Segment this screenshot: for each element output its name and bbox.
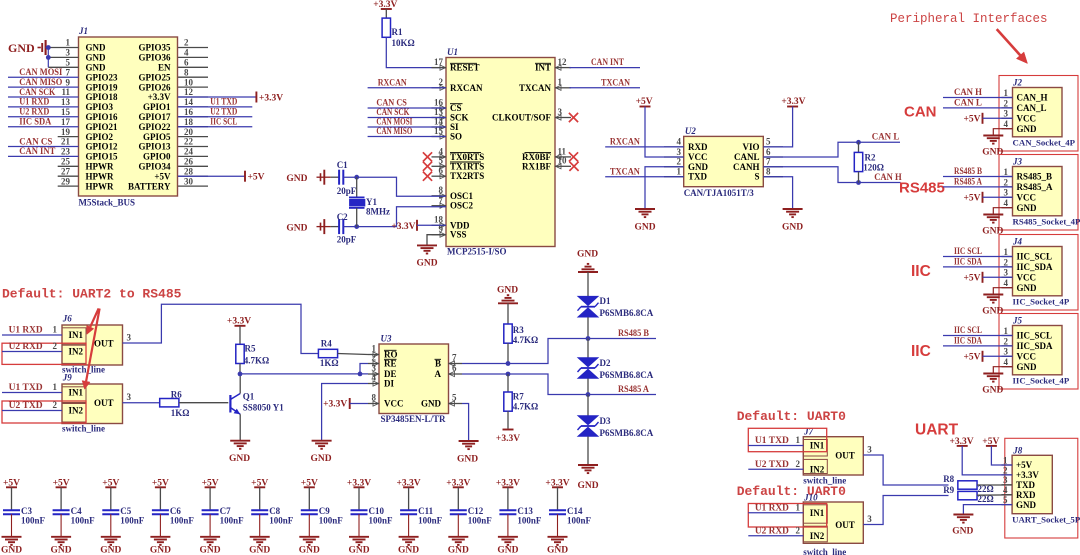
wire GND bus vertical at J1: [47, 48, 49, 68]
svg-text:RXD: RXD: [688, 142, 708, 152]
J3 pin numbers: [1004, 167, 1009, 208]
J1 pin numbers right (even): [184, 38, 194, 187]
svg-text:D1: D1: [600, 296, 611, 306]
svg-text:GND: GND: [577, 481, 598, 491]
svg-text:R7: R7: [513, 391, 524, 401]
power +3.3V above C12: [446, 478, 470, 510]
capacitor C13 100nF: [499, 506, 542, 526]
svg-text:U1 RXD: U1 RXD: [755, 502, 790, 512]
svg-text:GPIO19: GPIO19: [86, 82, 119, 92]
svg-text:R5: R5: [245, 344, 256, 354]
svg-text:IIC SDA: IIC SDA: [954, 257, 982, 267]
J5 pin names: [1017, 331, 1054, 372]
svg-text:IN1: IN1: [810, 508, 825, 518]
power +5V above C3: [3, 478, 20, 510]
svg-text:2: 2: [1004, 177, 1009, 187]
J5 pin stubs: [1002, 336, 1013, 367]
wire J10 OUT to R9: [863, 496, 948, 525]
svg-text:3: 3: [1004, 188, 1009, 198]
svg-text:GPIO21: GPIO21: [86, 122, 119, 132]
svg-text:RS485: RS485: [899, 180, 945, 197]
svg-text:GPIO0: GPIO0: [143, 152, 171, 162]
svg-text:IN2: IN2: [69, 406, 84, 416]
svg-text:IIC SDA: IIC SDA: [19, 117, 51, 127]
svg-text:Y1: Y1: [366, 197, 377, 207]
svg-text:DI: DI: [384, 379, 394, 389]
wire U3 DI to ground: [322, 384, 368, 441]
svg-text:J5: J5: [1012, 316, 1023, 326]
svg-text:U1 TXD: U1 TXD: [9, 382, 44, 392]
svg-text:3: 3: [677, 147, 682, 157]
svg-text:100nF: 100nF: [170, 515, 195, 525]
svg-text:4: 4: [1004, 357, 1009, 367]
svg-text:U2 TXD: U2 TXD: [755, 459, 790, 469]
svg-text:CAN INT: CAN INT: [19, 146, 55, 156]
svg-text:1: 1: [66, 38, 71, 48]
node IIC_SCL at J4 pin1: [943, 246, 1013, 256]
switch J6 body: [62, 314, 123, 375]
crystal Y1 8MHz: [349, 177, 390, 226]
node CAN_H at J2 pin1: [943, 87, 1013, 97]
svg-text:14: 14: [184, 97, 194, 107]
svg-text:6: 6: [766, 147, 771, 157]
junction D1 D2 on RS485_B: [586, 336, 591, 341]
power +5V above C6: [152, 478, 169, 510]
svg-text:+5V: +5V: [248, 173, 265, 183]
svg-text:IIC_Socket_4P: IIC_Socket_4P: [1013, 297, 1070, 307]
svg-text:4: 4: [1004, 198, 1009, 208]
wire C9 to ground: [308, 514, 310, 537]
svg-text:J10: J10: [803, 492, 818, 502]
wire J2 pin4 to ground: [993, 129, 1012, 136]
svg-text:C6: C6: [170, 506, 181, 516]
svg-text:RESET: RESET: [450, 63, 480, 73]
J6 pin texts: [69, 330, 114, 357]
svg-text:GPIO1: GPIO1: [143, 102, 171, 112]
svg-text:VCC: VCC: [1017, 352, 1037, 362]
red highlight box around J4: [999, 235, 1078, 311]
svg-text:U1 RXD: U1 RXD: [9, 325, 44, 335]
svg-text:6: 6: [184, 58, 189, 68]
U3 pin stubs: [368, 352, 462, 406]
power port GND at J1 pins 1-3-5: [8, 40, 48, 55]
svg-text:VCC: VCC: [1017, 193, 1037, 203]
svg-text:2: 2: [677, 157, 682, 167]
svg-text:CAN CS: CAN CS: [19, 136, 52, 146]
svg-text:8MHz: 8MHz: [366, 207, 390, 217]
svg-text:GPIO36: GPIO36: [138, 53, 171, 63]
svg-text:GPIO5: GPIO5: [143, 132, 171, 142]
svg-text:1: 1: [53, 325, 58, 335]
wire C8 to ground: [259, 514, 261, 537]
svg-text:R4: R4: [321, 339, 332, 349]
junction R3 on B wire: [506, 361, 511, 366]
svg-text:GND: GND: [1017, 283, 1038, 293]
svg-text:1: 1: [677, 167, 682, 177]
node U1 TXD at J7 IN1: [748, 435, 803, 445]
J6 IN2 cell: [62, 345, 86, 363]
svg-text:1: 1: [1003, 455, 1008, 465]
wire C2 to OSC2: [343, 207, 446, 227]
power port GND at C1: [286, 170, 330, 185]
svg-text:23: 23: [61, 147, 71, 157]
svg-text:GND: GND: [782, 223, 803, 233]
junction at J1 pin1: [46, 45, 51, 50]
svg-text:R6: R6: [171, 390, 182, 400]
svg-text:U2 RXD: U2 RXD: [19, 107, 49, 117]
power +5V at J2 pin3: [963, 113, 1012, 125]
svg-text:IN2: IN2: [810, 531, 825, 541]
svg-text:OUT: OUT: [94, 339, 114, 349]
svg-text:12: 12: [184, 87, 194, 97]
red highlight box around J8: [1005, 438, 1078, 538]
power port GND at C2: [286, 219, 330, 234]
svg-text:5: 5: [766, 137, 771, 147]
junction crystal bottom: [354, 224, 359, 229]
svg-text:GPIO25: GPIO25: [138, 72, 171, 82]
svg-text:+3.3V: +3.3V: [496, 434, 520, 444]
capacitor C5 100nF: [102, 506, 145, 526]
power +3.3V above R5: [227, 317, 251, 345]
svg-text:EN: EN: [158, 63, 171, 73]
wire C6 to ground: [159, 514, 161, 537]
svg-text:GND: GND: [421, 399, 442, 409]
wire J3 pin4 to ground: [993, 208, 1012, 215]
svg-text:GPIO23: GPIO23: [86, 72, 119, 82]
svg-text:IIC_SDA: IIC_SDA: [1017, 262, 1054, 272]
svg-text:1: 1: [1004, 167, 1009, 177]
svg-text:18: 18: [184, 117, 194, 127]
svg-text:IN1: IN1: [69, 330, 84, 340]
svg-text:D2: D2: [600, 358, 611, 368]
svg-text:OUT: OUT: [835, 520, 855, 530]
capacitor C7 100nF: [202, 506, 245, 526]
wire R1 to U1 RESET pin 17: [386, 37, 446, 67]
J1 left pin stubs: [8, 48, 79, 187]
ground below C8: [249, 537, 270, 555]
svg-text:100nF: 100nF: [71, 515, 96, 525]
svg-text:GND: GND: [100, 546, 121, 555]
svg-text:20: 20: [184, 127, 194, 137]
svg-text:RXCAN: RXCAN: [378, 78, 407, 88]
J10 red highlight rectangle: [748, 504, 826, 528]
wire C5 to ground: [110, 514, 112, 537]
svg-text:TXCAN: TXCAN: [519, 83, 552, 93]
resistor R6 1Kohm: [160, 390, 229, 419]
power +5V at U2 VCC: [636, 97, 684, 157]
svg-text:RX1BF: RX1BF: [522, 161, 552, 171]
power +5V at J4 pin3: [963, 272, 1012, 284]
svg-text:RXCAN: RXCAN: [610, 137, 640, 147]
svg-text:GPIO12: GPIO12: [86, 142, 119, 152]
switch J7 body: [803, 427, 863, 486]
svg-text:2: 2: [53, 400, 58, 410]
node IIC_SDA at J5 pin2: [943, 336, 1013, 346]
svg-text:120Ω: 120Ω: [863, 162, 884, 172]
svg-text:4: 4: [677, 137, 682, 147]
J8 pin stubs: [1002, 465, 1013, 505]
svg-text:GPIO34: GPIO34: [138, 162, 171, 172]
svg-text:GND: GND: [229, 454, 250, 464]
capacitor C10 100nF: [351, 506, 394, 526]
svg-text:GND: GND: [200, 546, 221, 555]
wire U2 CANH to CAN_H: [763, 167, 900, 183]
svg-text:GND: GND: [547, 546, 568, 555]
svg-text:21: 21: [61, 137, 71, 147]
svg-text:20pF: 20pF: [337, 186, 357, 196]
ground at J3: [982, 215, 1003, 237]
wire C14 to ground: [557, 514, 559, 537]
wire collector node to U3 DE RE: [240, 373, 368, 375]
U1 pin stubs left: [432, 65, 447, 237]
svg-text:U2 RXD: U2 RXD: [9, 341, 44, 351]
node U2 RXD at J6 IN2: [2, 341, 62, 351]
svg-text:10KΩ: 10KΩ: [392, 38, 415, 48]
svg-text:TXCAN: TXCAN: [610, 166, 640, 176]
resistor R8 22ohm: [943, 474, 1012, 494]
svg-text:2: 2: [796, 459, 801, 469]
node RS485_B at J3 pin1: [943, 166, 1013, 176]
svg-text:GPIO26: GPIO26: [138, 82, 171, 92]
svg-text:20pF: 20pF: [337, 235, 357, 245]
wire U3 A to RS485_A line: [462, 374, 656, 395]
svg-text:GPIO22: GPIO22: [138, 122, 171, 132]
capacitor C11 100nF: [400, 506, 443, 526]
power +3.3V above C11: [397, 478, 421, 510]
U1 pin names left: [450, 63, 484, 240]
U3 pin names: [384, 350, 442, 409]
ground at Q1 emitter: [229, 441, 250, 464]
node TXCAN at U1 pin1: [570, 77, 641, 87]
svg-text:100nF: 100nF: [468, 515, 493, 525]
junction CAN_H at R2: [856, 180, 861, 185]
svg-text:HPWR: HPWR: [86, 171, 114, 181]
U1 pin numbers: [434, 57, 567, 234]
svg-text:R9: R9: [943, 485, 954, 495]
svg-text:J4: J4: [1012, 237, 1023, 247]
svg-text:CAN: CAN: [904, 104, 937, 121]
svg-text:RS485_A: RS485_A: [1017, 182, 1054, 192]
svg-text:3: 3: [1004, 268, 1009, 278]
power +3.3V at J1 pin12: [178, 92, 283, 104]
resistor R5 4.7Kohm: [236, 344, 269, 374]
svg-text:12: 12: [558, 57, 568, 67]
svg-text:2: 2: [184, 38, 189, 48]
J1 left net labels: [19, 67, 62, 156]
wire J1 right labeled nets: [178, 107, 252, 127]
capacitor C12 100nF: [450, 506, 493, 526]
J2 pin numbers: [1004, 88, 1009, 129]
svg-text:+5V: +5V: [963, 274, 980, 284]
node CAN_L at J2 pin2: [943, 98, 1013, 108]
svg-text:GND: GND: [310, 454, 331, 464]
svg-text:100nF: 100nF: [21, 515, 46, 525]
switch J10 body: [803, 492, 863, 555]
svg-text:GPIO2: GPIO2: [86, 132, 114, 142]
svg-text:C12: C12: [468, 506, 484, 516]
svg-text:SCK: SCK: [450, 113, 469, 123]
svg-text:+3.3V: +3.3V: [259, 93, 283, 103]
connector J3 body: [1012, 157, 1080, 227]
svg-text:C7: C7: [220, 506, 231, 516]
red highlight box around J3: [999, 155, 1078, 231]
svg-text:100nF: 100nF: [418, 515, 443, 525]
capacitor C9 100nF: [301, 506, 344, 526]
U2 pin numbers: [677, 137, 772, 177]
svg-text:C1: C1: [337, 160, 348, 170]
svg-text:IIC: IIC: [911, 343, 931, 360]
svg-text:GND: GND: [1017, 203, 1038, 213]
J1 right net labels: [210, 97, 237, 127]
svg-text:29: 29: [61, 176, 71, 186]
svg-text:CAN_Socket_4P: CAN_Socket_4P: [1013, 138, 1076, 148]
svg-text:CAN CS: CAN CS: [376, 98, 407, 108]
wire U3 GND pin5 to ground: [462, 404, 469, 442]
svg-text:4: 4: [184, 48, 189, 58]
svg-text:TXD: TXD: [688, 172, 708, 182]
svg-text:J6: J6: [62, 314, 73, 324]
svg-text:3: 3: [1003, 475, 1008, 485]
connector J5 body: [1012, 316, 1070, 386]
node RXCAN at U1 pin2: [368, 78, 446, 88]
ground below C3: [1, 537, 22, 555]
svg-text:GND: GND: [1, 546, 22, 555]
J10 IN2 cell: [803, 526, 827, 542]
svg-text:27: 27: [61, 166, 71, 176]
J2 pin names: [1017, 93, 1048, 134]
svg-text:IIC_SCL: IIC_SCL: [1017, 331, 1053, 341]
svg-text:4: 4: [1004, 119, 1009, 129]
svg-text:UART_Socket_5P: UART_Socket_5P: [1012, 515, 1080, 525]
ground at U3 pin5: [457, 441, 479, 464]
J9 IN1 cell: [62, 387, 86, 403]
annotation arrow to J2: [997, 29, 1028, 63]
svg-text:C4: C4: [71, 506, 82, 516]
svg-text:IIC SDA: IIC SDA: [954, 336, 982, 346]
ground below C10: [348, 537, 369, 555]
svg-text:VCC: VCC: [1017, 273, 1037, 283]
svg-text:GND: GND: [577, 249, 598, 259]
svg-text:25: 25: [61, 157, 71, 167]
svg-text:GND: GND: [457, 454, 478, 464]
svg-text:VCC: VCC: [688, 152, 708, 162]
J5 pin numbers: [1004, 326, 1009, 367]
svg-text:5: 5: [1003, 495, 1008, 505]
svg-text:C5: C5: [120, 506, 131, 516]
svg-text:OSC1: OSC1: [450, 191, 474, 201]
svg-text:1KΩ: 1KΩ: [171, 408, 190, 418]
svg-text:RXD: RXD: [1016, 490, 1036, 500]
power +3.3V above C10: [347, 478, 371, 510]
svg-text:M5Stack_BUS: M5Stack_BUS: [79, 198, 136, 208]
svg-text:2: 2: [1004, 98, 1009, 108]
svg-text:RE: RE: [384, 359, 397, 369]
svg-text:RXCAN: RXCAN: [450, 83, 483, 93]
svg-text:GPIO3: GPIO3: [86, 102, 114, 112]
node U2 TXD at J7 IN2: [748, 459, 803, 469]
annotation arrow to J6 IN1: [87, 309, 99, 335]
svg-text:3: 3: [127, 332, 132, 342]
svg-text:100nF: 100nF: [120, 515, 145, 525]
svg-text:GND: GND: [51, 546, 72, 555]
svg-text:IIC_Socket_4P: IIC_Socket_4P: [1013, 376, 1070, 386]
svg-text:+3.3V: +3.3V: [391, 222, 415, 232]
svg-text:CAN_L: CAN_L: [1017, 103, 1047, 113]
J3 pin stubs: [1002, 177, 1013, 208]
svg-text:+5V: +5V: [636, 97, 653, 107]
svg-text:IN1: IN1: [810, 441, 825, 451]
svg-text:CAN/TJA1051T/3: CAN/TJA1051T/3: [684, 188, 755, 198]
svg-text:RS485_Socket_4P: RS485_Socket_4P: [1013, 217, 1080, 227]
svg-text:P6SMB6.8CA: P6SMB6.8CA: [600, 370, 654, 380]
power +5V above C5: [102, 478, 119, 510]
svg-text:GND: GND: [299, 546, 320, 555]
resistor R7 4.7Kohm: [504, 374, 538, 429]
wire junction up to RE: [360, 364, 368, 374]
svg-text:GND: GND: [982, 307, 1003, 317]
svg-text:+5V: +5V: [963, 353, 980, 363]
svg-text:3: 3: [66, 48, 71, 58]
svg-text:5: 5: [66, 58, 71, 68]
svg-text:DE: DE: [384, 369, 397, 379]
node U1 RXD at J6 IN1: [2, 325, 62, 335]
J10 pin texts: [810, 508, 855, 541]
svg-text:1: 1: [1004, 247, 1009, 257]
ground below C5: [100, 537, 121, 555]
svg-text:MCP2515-I/SO: MCP2515-I/SO: [447, 247, 507, 257]
svg-text:GND: GND: [398, 546, 419, 555]
svg-text:INT: INT: [535, 63, 551, 73]
svg-text:CAN SCK: CAN SCK: [376, 107, 409, 117]
power +5V at J5 pin3: [963, 351, 1012, 363]
svg-text:U3: U3: [381, 333, 392, 343]
diode D1 P6SMB6.8CA: [578, 272, 654, 339]
svg-text:9: 9: [66, 77, 71, 87]
junction R7 on A wire: [506, 372, 511, 377]
svg-text:C11: C11: [418, 506, 434, 516]
svg-text:13: 13: [61, 97, 71, 107]
svg-text:CAN MOSI: CAN MOSI: [376, 117, 412, 127]
power +5V above C9: [301, 478, 318, 510]
svg-text:J9: J9: [62, 373, 73, 383]
J7 red highlight rectangle: [748, 428, 826, 451]
svg-text:IN2: IN2: [810, 465, 825, 475]
svg-text:VCC: VCC: [1017, 114, 1037, 124]
ground below C4: [51, 537, 72, 555]
capacitor C1: [331, 160, 357, 196]
U2 pin names: [688, 142, 760, 182]
svg-text:Q1: Q1: [243, 392, 255, 402]
node RXCAN at U2: [605, 137, 684, 147]
ground below C14: [547, 537, 568, 555]
svg-text:GND: GND: [286, 174, 307, 184]
svg-text:100nF: 100nF: [269, 515, 294, 525]
junction RE DE split: [358, 372, 363, 377]
svg-text:C3: C3: [21, 506, 32, 516]
svg-text:R8: R8: [943, 474, 954, 484]
svg-text:4.7KΩ: 4.7KΩ: [244, 356, 269, 366]
svg-text:3: 3: [127, 392, 132, 402]
capacitor C14 100nF: [549, 506, 592, 526]
svg-text:CS: CS: [450, 103, 462, 113]
svg-text:SI: SI: [450, 122, 459, 132]
svg-text:CAN SCK: CAN SCK: [19, 87, 55, 97]
red highlight box around J5: [999, 314, 1078, 390]
svg-text:Default: UART0: Default: UART0: [737, 409, 846, 424]
wire J4 pin4 to ground: [993, 288, 1012, 295]
junction at J1 pin3: [46, 55, 51, 60]
power +3.3V above R1: [373, 0, 397, 18]
